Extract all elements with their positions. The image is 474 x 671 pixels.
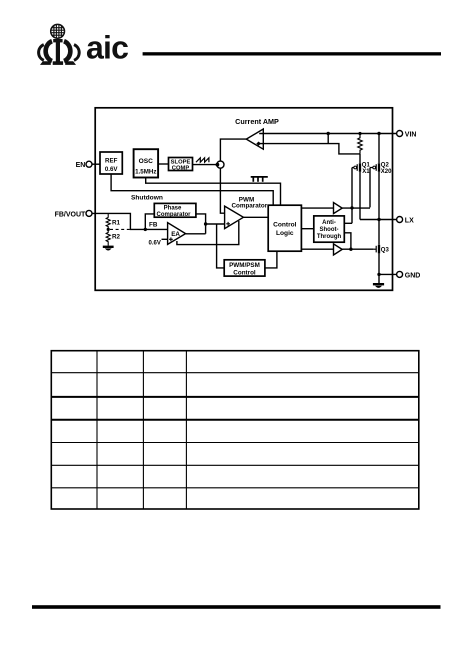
svg-text:Control: Control — [273, 221, 297, 228]
wire FB node to phase comparator — [145, 214, 154, 230]
junction Q2 source on VIN rail — [377, 132, 380, 135]
junction R1/R2 divider — [107, 228, 110, 231]
wire anti-shoot-through sense bottom — [344, 233, 351, 249]
wire Q2 drain to LX rail — [378, 172, 380, 220]
summing node — [216, 161, 224, 168]
svg-text:X20: X20 — [381, 169, 392, 175]
svg-text:aic: aic — [86, 30, 128, 66]
svg-text:GND: GND — [405, 272, 421, 279]
svg-text:OSC: OSC — [139, 158, 154, 165]
AIC logo globe — [51, 24, 65, 38]
svg-text:VIN: VIN — [405, 132, 417, 139]
transistor Q3 (NMOS) — [374, 245, 390, 254]
wire GND rail — [379, 273, 397, 275]
clock pulses symbol — [251, 177, 268, 182]
block Control Logic — [268, 205, 301, 251]
buffer top gate driver — [334, 203, 343, 214]
op-amp EA error amplifier — [168, 223, 186, 245]
pin FB/VOUT terminal — [55, 210, 92, 218]
svg-text:Phase: Phase — [164, 206, 182, 212]
wire PWM comparator output to control logic — [243, 216, 268, 218]
pin LX terminal — [397, 217, 414, 225]
junction FB node — [144, 228, 147, 231]
bottom rule — [32, 605, 441, 609]
block PWM/PSM Control — [224, 260, 265, 277]
junction EA node — [204, 222, 207, 225]
table — [51, 351, 419, 509]
pin GND terminal — [397, 271, 421, 279]
svg-text:Comparator: Comparator — [231, 203, 267, 210]
svg-text:X1: X1 — [362, 169, 370, 175]
svg-text:R2: R2 — [112, 234, 121, 241]
block OSC 1.5MHz — [134, 149, 159, 177]
wire 0.6V to EA non-inverting input — [162, 238, 169, 240]
junction bottom gate node — [349, 248, 352, 251]
svg-text:0.6V: 0.6V — [149, 240, 161, 246]
svg-text:EA: EA — [171, 231, 180, 238]
svg-text:R1: R1 — [112, 219, 121, 226]
wire EA node to PWM noninverting input — [206, 223, 227, 225]
junction top gate node — [350, 206, 353, 209]
wire FB/VOUT to EA inverting input — [92, 213, 173, 229]
svg-text:PWM/PSM: PWM/PSM — [229, 262, 260, 269]
wire EA node down to PWM/PSM control — [217, 224, 225, 268]
transistor Q2 (PMOS X20) — [370, 162, 392, 175]
resistor sense — [358, 134, 362, 154]
ground under R2 — [103, 246, 114, 251]
wire Q2 gate — [369, 168, 371, 208]
svg-text:REF: REF — [105, 157, 118, 164]
transistor Q1 (PMOS X1) — [352, 162, 370, 175]
wire shutdown from REF — [111, 174, 273, 205]
svg-text:Shutdown: Shutdown — [131, 194, 163, 201]
AIC logo crown — [39, 39, 80, 65]
junction LX rail Q2/Q3 — [377, 218, 380, 221]
junction on VIN rail — [327, 132, 330, 135]
wire Q1 drain to LX rail — [359, 172, 361, 220]
junction sense resistor top — [358, 132, 361, 135]
block SLOPE COMP — [169, 158, 193, 172]
wire Q1 source from sense resistor — [359, 154, 361, 163]
wire VIN rail tap to bottom input — [327, 134, 329, 144]
svg-text:LX: LX — [405, 218, 414, 225]
wire EA lower to PWM comparator lower — [177, 221, 239, 245]
top rule — [143, 52, 441, 55]
svg-text:0.6V: 0.6V — [105, 166, 119, 173]
junction GND node — [377, 273, 380, 276]
wire VIN rail (current amp top input to VIN pin) — [259, 133, 397, 135]
wire clock from OSC — [146, 178, 281, 206]
svg-text:Q1: Q1 — [362, 162, 371, 168]
wire Q2 source from VIN rail — [378, 134, 380, 164]
block Anti-Shoot-Through — [314, 216, 345, 242]
ground symbol — [373, 283, 384, 288]
op-amp current AMP — [235, 117, 279, 149]
svg-text:Current AMP: Current AMP — [235, 117, 279, 126]
pin VIN terminal — [397, 131, 417, 139]
wire SLOPE COMP to summing node — [193, 164, 218, 166]
svg-text:Shoot-: Shoot- — [320, 227, 339, 233]
svg-text:EN: EN — [76, 162, 86, 169]
wire top buffer output to Q1/Q2 gates — [342, 207, 370, 209]
wire OSC to SLOPE COMP — [158, 163, 168, 165]
resistor R2 — [106, 229, 120, 245]
wire Q3 drain from LX rail — [378, 220, 380, 245]
wire EN to REF — [92, 163, 100, 165]
svg-text:1.5MHz: 1.5MHz — [135, 168, 156, 175]
svg-text:Logic: Logic — [276, 230, 294, 237]
wire PWM/PSM control to control logic — [265, 251, 277, 268]
comparator PWM — [225, 197, 268, 229]
svg-text:FB/VOUT: FB/VOUT — [55, 211, 86, 218]
wire LX rail — [360, 219, 397, 221]
wire summing node to PWM comparator inverting input — [220, 168, 229, 213]
wire Q1 gate — [351, 168, 353, 224]
svg-text:Q3: Q3 — [381, 248, 390, 254]
wire phase comparator output — [196, 214, 206, 234]
svg-text:Comparator: Comparator — [156, 212, 191, 218]
wire anti-shoot-through sense top — [344, 222, 352, 224]
resistor R1 — [106, 213, 120, 229]
svg-text:Control: Control — [233, 269, 256, 276]
wire current amp output to summing node — [220, 139, 246, 161]
wire current amp bottom input to sense resistor — [258, 144, 360, 154]
wire EA output to PWM comparator — [186, 233, 206, 235]
svg-text:FB: FB — [149, 222, 158, 229]
block REF 0.6V — [100, 152, 122, 174]
pin EN terminal — [76, 161, 92, 169]
svg-text:COMP: COMP — [172, 166, 190, 172]
wire control logic to top gate buffer — [301, 207, 333, 209]
svg-text:Through: Through — [317, 234, 342, 240]
buffer bottom gate driver — [334, 244, 343, 255]
wire Q3 source to GND rail — [378, 253, 380, 283]
svg-text:Q2: Q2 — [381, 162, 390, 168]
sawtooth waveform symbol — [196, 158, 209, 162]
block Phase Comparator — [154, 203, 196, 218]
wire dashed divider tap — [110, 228, 130, 230]
svg-text:Anti-: Anti- — [322, 220, 336, 226]
wire bottom buffer output to Q3 gate — [342, 248, 373, 250]
wire control logic to anti-shoot-through — [301, 228, 313, 230]
diagram outer border — [95, 108, 392, 290]
wire control logic to bottom gate buffer — [301, 248, 333, 250]
